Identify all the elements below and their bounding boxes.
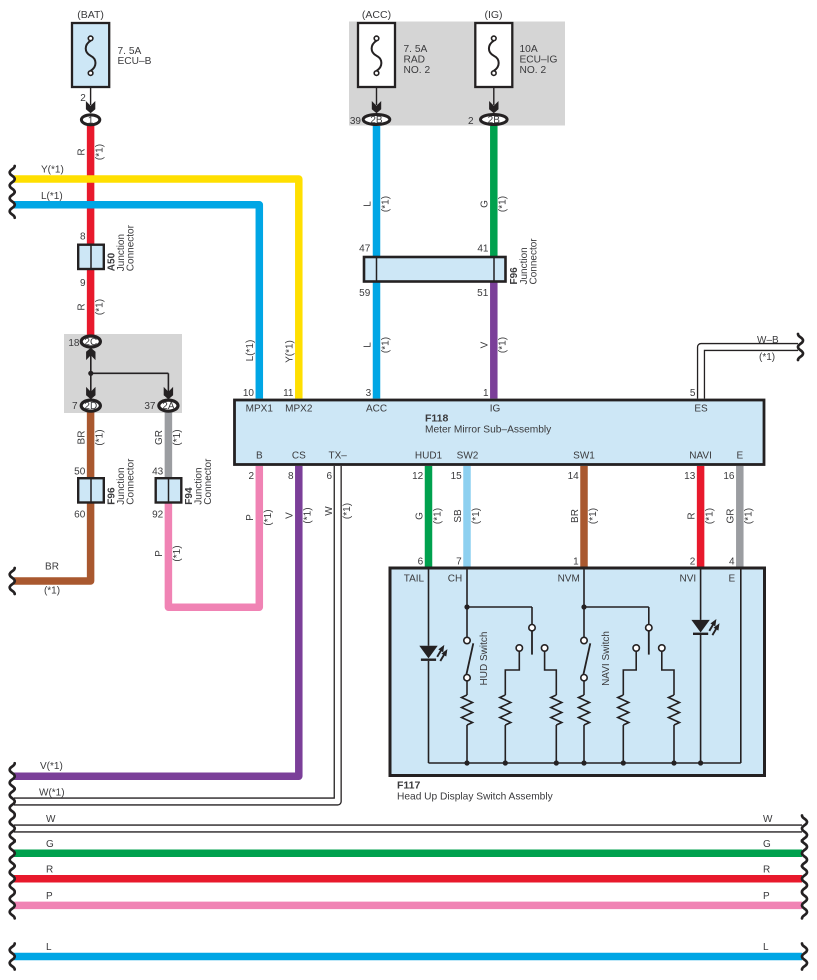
svg-text:GR: GR [726,509,737,524]
svg-text:9: 9 [80,278,86,289]
svg-text:(*1): (*1) [94,429,105,445]
svg-text:NAVI Switch: NAVI Switch [601,631,612,686]
svg-text:(*1): (*1) [94,144,105,160]
svg-text:10: 10 [243,388,255,399]
svg-text:SW1: SW1 [573,451,595,462]
svg-text:37: 37 [144,401,156,412]
svg-text:(*1): (*1) [342,503,353,519]
svg-text:Meter Mirror Sub–Assembly: Meter Mirror Sub–Assembly [425,425,552,436]
svg-text:P: P [245,514,256,521]
svg-text:2: 2 [690,557,696,568]
svg-text:NO. 2: NO. 2 [520,65,547,76]
svg-text:P: P [763,891,770,902]
svg-text:(*1): (*1) [759,352,775,363]
svg-text:E: E [729,574,736,585]
svg-text:16: 16 [723,471,735,482]
svg-text:NVI: NVI [680,574,697,585]
svg-text:(BAT): (BAT) [77,9,104,21]
svg-text:NO. 2: NO. 2 [404,65,431,76]
svg-text:2C: 2C [84,337,97,348]
svg-text:(*1): (*1) [498,196,509,212]
svg-text:P: P [46,891,53,902]
svg-text:BR: BR [570,509,581,523]
svg-text:SW2: SW2 [457,451,479,462]
svg-text:(ACC): (ACC) [362,9,391,21]
svg-text:P: P [154,550,165,557]
svg-text:BR: BR [76,431,87,445]
svg-text:L: L [763,942,769,953]
svg-text:SB: SB [453,509,464,523]
svg-text:5: 5 [690,388,696,399]
svg-text:TX–: TX– [329,451,348,462]
svg-text:6: 6 [327,471,333,482]
svg-text:(*1): (*1) [44,586,60,597]
svg-text:GR: GR [154,430,165,445]
svg-text:G: G [763,839,771,850]
svg-text:Connector: Connector [125,458,136,505]
svg-text:W(*1): W(*1) [39,788,65,799]
svg-text:(*1): (*1) [94,299,105,315]
svg-text:L(*1): L(*1) [245,340,256,362]
svg-text:18: 18 [68,338,80,349]
svg-text:43: 43 [152,467,164,478]
svg-text:TAIL: TAIL [404,574,425,585]
svg-text:50: 50 [74,467,86,478]
svg-text:W–B: W–B [757,335,779,346]
svg-text:41: 41 [477,244,489,255]
svg-text:Connector: Connector [203,458,214,505]
svg-text:4: 4 [729,557,735,568]
svg-text:10A: 10A [520,44,538,55]
svg-text:7: 7 [72,401,78,412]
svg-text:(*1): (*1) [303,507,314,523]
svg-text:(*1): (*1) [498,337,509,353]
svg-text:RAD: RAD [404,55,426,66]
svg-text:(*1): (*1) [172,429,183,445]
svg-text:1: 1 [88,115,94,126]
svg-text:(*1): (*1) [380,196,391,212]
svg-text:Head Up Display Switch Assembl: Head Up Display Switch Assembly [397,792,554,803]
svg-text:Connector: Connector [528,238,539,285]
svg-text:60: 60 [74,510,86,521]
svg-text:(*1): (*1) [380,337,391,353]
svg-text:NVM: NVM [558,574,580,585]
svg-text:6: 6 [418,557,424,568]
svg-text:2B: 2B [370,115,383,126]
svg-text:11: 11 [283,388,294,399]
svg-text:E: E [736,451,743,462]
svg-text:G: G [46,839,54,850]
svg-text:G: G [414,512,425,520]
svg-text:R: R [686,512,697,519]
svg-text:L: L [46,942,52,953]
svg-text:13: 13 [684,471,696,482]
svg-text:2D: 2D [84,401,97,412]
svg-text:F118: F118 [425,413,449,425]
svg-text:Y(*1): Y(*1) [285,340,296,363]
svg-text:HUD1: HUD1 [415,451,443,462]
svg-text:MPX1: MPX1 [246,404,274,415]
svg-text:ES: ES [694,404,708,415]
svg-text:ECU–IG: ECU–IG [520,55,558,66]
svg-text:W: W [46,814,56,825]
svg-text:(*1): (*1) [263,509,274,525]
svg-text:51: 51 [477,288,489,299]
svg-text:IG: IG [490,404,501,415]
svg-text:7. 5A: 7. 5A [404,44,428,55]
svg-text:2: 2 [80,93,86,104]
svg-text:2B: 2B [488,115,501,126]
svg-text:(*1): (*1) [172,545,183,561]
svg-text:8: 8 [288,471,294,482]
svg-text:BR: BR [45,562,59,573]
svg-text:1: 1 [573,557,579,568]
svg-text:R: R [46,864,53,875]
svg-text:W: W [324,506,335,516]
svg-text:ACC: ACC [366,404,387,415]
svg-text:(*1): (*1) [588,508,599,524]
svg-text:2: 2 [468,116,474,127]
svg-text:2A: 2A [162,401,175,412]
svg-text:B: B [256,451,263,462]
svg-text:39: 39 [350,116,362,127]
svg-text:12: 12 [412,471,424,482]
svg-text:R: R [76,148,87,155]
svg-text:L: L [362,201,373,207]
svg-text:15: 15 [451,471,463,482]
svg-text:59: 59 [359,288,371,299]
svg-text:2: 2 [248,471,254,482]
svg-text:V(*1): V(*1) [40,761,63,772]
svg-text:8: 8 [80,232,86,243]
svg-text:(*1): (*1) [432,508,443,524]
svg-text:ECU–B: ECU–B [118,56,152,67]
svg-text:47: 47 [359,244,371,255]
svg-text:R: R [76,303,87,310]
svg-text:3: 3 [366,388,372,399]
svg-text:(IG): (IG) [484,9,502,21]
svg-text:Y(*1): Y(*1) [41,164,64,175]
svg-text:92: 92 [152,510,164,521]
svg-text:1: 1 [483,388,489,399]
svg-text:R: R [763,864,770,875]
svg-text:(*1): (*1) [744,508,755,524]
svg-text:MPX2: MPX2 [285,404,313,415]
svg-text:CH: CH [448,574,462,585]
svg-text:NAVI: NAVI [689,451,712,462]
svg-text:V: V [480,341,491,348]
svg-text:L: L [362,342,373,348]
svg-text:G: G [480,200,491,208]
svg-text:W: W [763,814,773,825]
svg-text:Connector: Connector [125,224,136,271]
svg-text:CS: CS [292,451,306,462]
svg-text:(*1): (*1) [704,508,715,524]
svg-text:L(*1): L(*1) [41,191,63,202]
svg-text:14: 14 [568,471,580,482]
svg-text:F117: F117 [397,780,421,792]
svg-text:HUD Switch: HUD Switch [479,632,490,686]
svg-text:7: 7 [456,557,462,568]
svg-text:(*1): (*1) [471,508,482,524]
svg-text:V: V [285,512,296,519]
